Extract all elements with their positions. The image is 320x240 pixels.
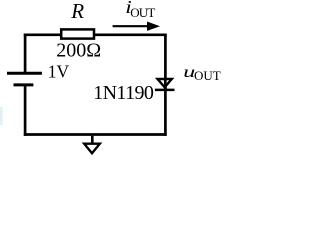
ground [84,136,100,153]
svg-text:200Ω: 200Ω [56,39,101,61]
label uOUT [183,64,221,83]
wire left lower [24,86,27,136]
svg-text:OUT: OUT [194,68,221,83]
label iOUT [125,0,155,20]
wire left upper [24,34,27,73]
scan artifact cyan bar [0,107,3,125]
wire top [24,33,167,36]
diode D1 [155,78,175,92]
svg-text:OUT: OUT [130,5,155,20]
wire bottom [24,133,167,136]
current arrow iOUT [113,22,160,31]
resistor R body [61,29,94,38]
svg-text:R: R [70,0,84,23]
battery V1 plate long [7,72,42,75]
svg-text:1V: 1V [48,61,70,81]
wire right [164,34,167,136]
battery V1 plate short [14,83,34,86]
svg-text:1N1190: 1N1190 [93,82,154,104]
